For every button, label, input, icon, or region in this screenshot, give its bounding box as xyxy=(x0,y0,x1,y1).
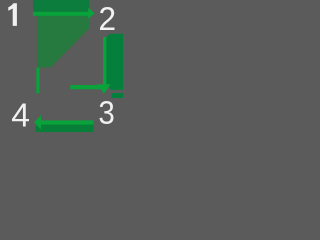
dark green right block xyxy=(106,34,123,90)
dark green small right band xyxy=(112,93,124,98)
label digit 4 xyxy=(12,104,29,127)
background panel xyxy=(0,0,123,132)
bright green vertical line below flag xyxy=(36,68,39,94)
dark green flag polygon xyxy=(38,16,90,68)
label digit 3 xyxy=(100,101,114,124)
bright green arrow 2 horizontal feed bar xyxy=(70,85,106,89)
dark green bottom bar xyxy=(36,125,94,133)
bright green arrow 3 shaft (points left) xyxy=(41,120,94,124)
bright green arrow 3 head xyxy=(34,115,41,129)
dark green top band xyxy=(33,0,90,16)
label digit 1 (drawn) xyxy=(0,0,123,132)
bright green arrow 2 head xyxy=(97,84,110,94)
bright green arrow 1 shaft (points right) xyxy=(33,12,89,16)
bright green arrow 1 head xyxy=(88,8,95,19)
bright green arrow 2 vertical shaft (points down) xyxy=(103,37,106,86)
label digit 2 xyxy=(100,7,115,30)
